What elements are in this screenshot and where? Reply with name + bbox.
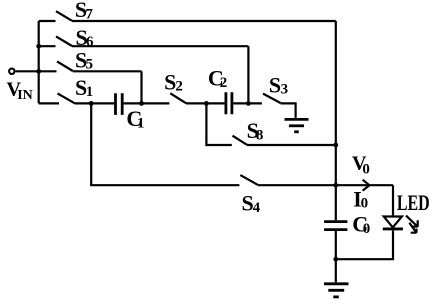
wire S5 row right (73, 70, 142, 72)
wire S5 row left (39, 70, 57, 72)
wire right bus (335, 21, 337, 220)
svg-text:8: 8 (256, 127, 264, 143)
wire S6 row right (72, 45, 248, 47)
node junction left bus / VIN (36, 69, 41, 74)
svg-text:0: 0 (361, 195, 369, 211)
node junction C1 / S5 (139, 101, 144, 106)
wire S6 row left (39, 45, 56, 47)
switch S7 arm (56, 11, 72, 21)
label S7 (75, 0, 94, 22)
svg-text:0: 0 (362, 161, 370, 177)
wire S4 to right bus (258, 184, 336, 186)
capacitor C0 plates (324, 222, 347, 230)
label S4 (242, 191, 261, 216)
input terminal VIN (9, 69, 14, 74)
wire C1 to S2 (124, 102, 170, 104)
LED emission arrow 1 (406, 216, 418, 227)
label C1 (126, 106, 144, 131)
LED emission arrow 2 (409, 223, 416, 233)
svg-text:5: 5 (86, 57, 94, 73)
svg-text:0: 0 (363, 221, 371, 237)
switch S3 arm (263, 94, 281, 103)
wire S8 to right bus (247, 144, 336, 146)
label S5 (75, 47, 93, 72)
wire C2 to S3 (233, 102, 262, 104)
wire VIN stub (16, 70, 39, 72)
label S3 (269, 72, 288, 97)
wire right bus below C0 (335, 231, 337, 282)
node junction left bus / S6 (36, 44, 41, 49)
arrow I0 head (363, 180, 370, 191)
node junction C2 / S6 (246, 101, 251, 106)
svg-text:1: 1 (86, 84, 94, 100)
wire S4 branch drop (91, 103, 239, 185)
wire S7 row right (72, 20, 336, 22)
label V0 (352, 153, 370, 178)
switch S6 arm (56, 36, 72, 46)
svg-text:2: 2 (220, 75, 228, 91)
wire LED branch bottom (336, 230, 393, 259)
label C0 (352, 212, 370, 237)
node junction LED return (333, 257, 338, 262)
diode LED cathode bar (383, 227, 403, 230)
svg-text:S: S (269, 72, 281, 97)
wire LED branch top (392, 185, 394, 215)
switch S4 arm (240, 175, 258, 185)
svg-text:7: 7 (85, 6, 93, 22)
switch S8 arm (233, 136, 248, 145)
node junction S4 tap (89, 101, 94, 106)
node junction output V0 (333, 183, 338, 188)
label LED (397, 190, 430, 215)
label S1 (75, 75, 93, 100)
node junction S2 / S8 tap (204, 101, 209, 106)
svg-text:3: 3 (281, 82, 289, 98)
wire S6 drop to C2 output node (247, 46, 249, 103)
ground for S3 (285, 119, 309, 131)
wire S2 to C2 (186, 102, 225, 104)
switch S2 arm (170, 93, 186, 103)
switch S1 arm (58, 93, 75, 103)
label S2 (164, 69, 183, 94)
label I0 (353, 186, 368, 211)
wire S1 row left (39, 102, 59, 104)
label VIN (7, 79, 33, 103)
label S8 (247, 118, 264, 143)
svg-text:4: 4 (253, 200, 261, 216)
svg-text:IN: IN (17, 88, 33, 103)
wire S7 row left (39, 20, 56, 22)
capacitor C1 plates (116, 93, 123, 115)
wire S1 to C1 (75, 102, 115, 104)
node junction S8 / right bus (333, 143, 338, 148)
label S6 (76, 25, 95, 50)
switch S5 arm (57, 61, 73, 71)
wire left bus vertical (38, 21, 40, 103)
label C2 (208, 66, 227, 91)
svg-text:2: 2 (175, 79, 183, 95)
svg-text:1: 1 (137, 115, 145, 131)
wire S5 drop to C1 output node (140, 71, 142, 103)
wire S3 to ground (281, 103, 296, 118)
wire output to LED with current arrow (336, 184, 393, 186)
ground for C0 (324, 284, 349, 297)
diode LED triangle (384, 217, 402, 228)
capacitor C2 plates (226, 92, 232, 114)
wire S8 branch drop (206, 103, 231, 145)
svg-text:LED: LED (397, 190, 430, 215)
